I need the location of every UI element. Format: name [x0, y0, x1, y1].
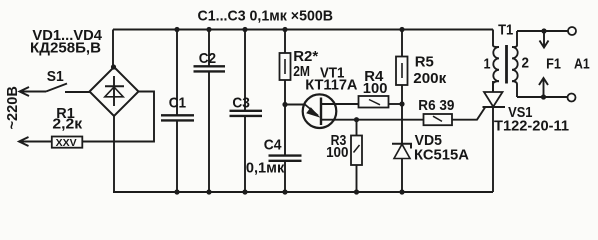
svg-text:C4: C4 — [264, 136, 282, 153]
svg-text:S1: S1 — [47, 68, 64, 85]
svg-text:C2: C2 — [199, 50, 216, 67]
svg-text:XXV: XXV — [56, 137, 77, 149]
svg-text:100: 100 — [326, 144, 348, 161]
svg-text:100: 100 — [363, 80, 388, 97]
svg-text:2: 2 — [522, 55, 530, 72]
svg-text:R6 39: R6 39 — [418, 97, 454, 114]
svg-text:C1: C1 — [169, 95, 186, 112]
svg-text:2,2к: 2,2к — [52, 116, 82, 133]
svg-text:С1...С3 0,1мк ×500В: С1...С3 0,1мк ×500В — [198, 8, 334, 25]
svg-text:КС515А: КС515А — [414, 147, 469, 164]
svg-text:200к: 200к — [413, 70, 446, 87]
svg-text:F1: F1 — [546, 55, 561, 72]
svg-text:А1: А1 — [574, 55, 590, 72]
svg-text:0,1мк: 0,1мк — [246, 160, 285, 177]
svg-text:C3: C3 — [232, 95, 250, 112]
svg-text:КТ117А: КТ117А — [305, 77, 357, 94]
svg-text:КД258Б,В: КД258Б,В — [30, 40, 101, 57]
svg-text:R5: R5 — [415, 53, 434, 70]
svg-text:~220В: ~220В — [4, 86, 21, 130]
svg-text:Т122-20-11: Т122-20-11 — [494, 118, 569, 135]
svg-text:Т1: Т1 — [498, 21, 513, 38]
svg-text:1: 1 — [484, 56, 491, 73]
